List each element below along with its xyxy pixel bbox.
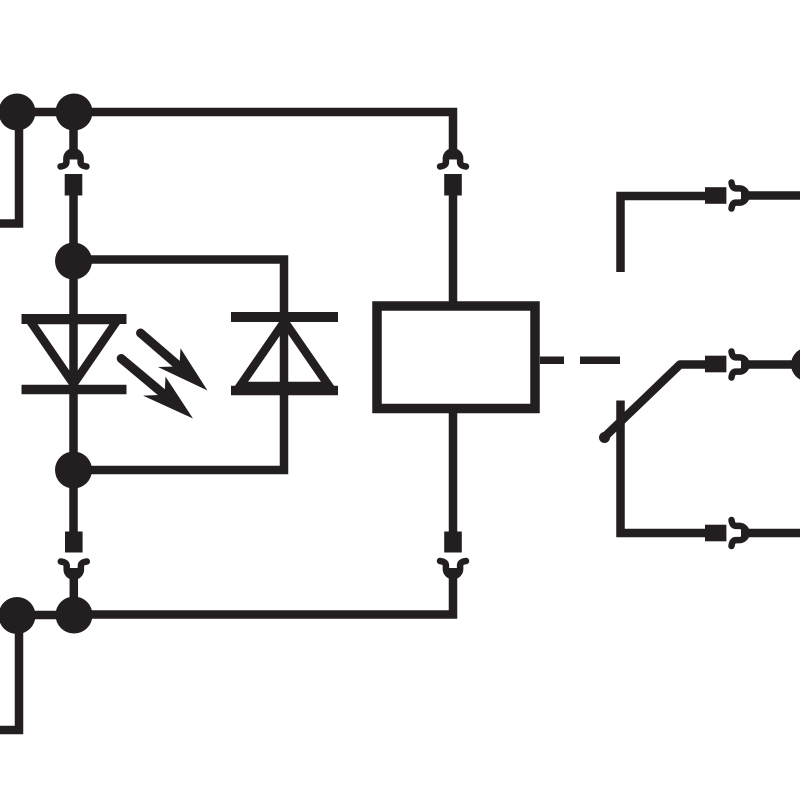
connector socket F3 (opens up) [61,562,87,577]
LED arrow 2 shaft [121,359,162,393]
node T1a [0,94,36,131]
connector pin P2 (male square) [444,174,462,196]
node J1 [55,243,92,280]
contact pin P7 (male square) [705,525,726,542]
connector socket F1 (female, opens down) [61,151,87,166]
connector pin P4 (male square) [444,532,462,553]
connector socket F4 (opens up) [440,561,466,576]
wire socket F4 to bottom rail [74,568,453,615]
connector socket F2 coil branch (opens down) [440,151,466,166]
node B1b [56,597,93,634]
contact pin P5 (male square) [705,187,726,204]
wire common pole [621,401,706,534]
diode D2 cathode bar [231,312,338,322]
wire pin P2 to coil [449,195,458,306]
mechanical link dashed line [540,357,620,365]
node J2 [55,452,92,489]
switch lever S1 [604,365,706,438]
switch lever pivot tip [599,432,610,443]
node B1a [0,597,36,634]
LED D1 triangle [30,320,118,384]
diode D2 triangle [240,322,329,387]
contact pin P6 (male square) [705,356,726,373]
diode D2 bottom bar [231,386,338,396]
wire bottom-left exit [0,615,19,730]
wire J1 to diode branch loop [74,260,285,471]
wire LED branch vertical [69,195,78,532]
wire top rail from terminal to coil branch [17,112,453,160]
wire B1a to B1b [17,611,74,620]
LED D1 cathode bar [22,385,127,395]
node T1b [56,94,93,131]
LED arrow 2 head [143,377,193,419]
wire coil to pin P4 [449,408,458,532]
LED arrow 1 shaft [141,333,178,365]
contact socket F7 (opens left) [732,520,747,546]
wire stub T1b to socket [69,112,78,160]
wire NC fixed contact stub [621,196,706,272]
connector pin P3 (male square) [65,532,83,553]
LED D1 top bar [22,314,127,324]
wire top-left exit [0,112,19,224]
connector pin P1 (male square) [65,174,83,196]
relay coil K1 [377,306,535,409]
contact socket F6 (opens left) [732,352,747,378]
LED arrow 1 head [158,348,208,390]
wire terminal 11 [741,529,800,538]
wire terminal 14 [741,360,792,369]
wire terminal 12 [741,191,800,200]
wire socket F3 to node B1b [70,568,79,615]
node terminal 14 edge dot [791,348,800,382]
contact socket F5 (opens left) [732,183,747,209]
